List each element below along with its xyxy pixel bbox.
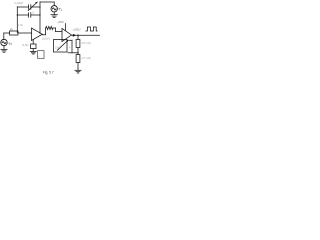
svg-text:(1,5k): (1,5k)	[22, 43, 29, 47]
svg-text:+: +	[69, 46, 71, 49]
svg-text:LM311: LM311	[73, 27, 81, 31]
svg-text:2: 2	[10, 44, 13, 46]
svg-text:1,5p: 1,5p	[18, 23, 24, 27]
svg-text:≈: ≈	[38, 56, 40, 59]
svg-text:1: 1	[61, 10, 63, 12]
svg-text:5÷20pF: 5÷20pF	[14, 1, 23, 5]
svg-text:+15V: +15V	[57, 20, 64, 24]
svg-text:(27 kΩ): (27 kΩ)	[81, 57, 91, 60]
svg-text:(50 kΩ): (50 kΩ)	[81, 42, 91, 45]
svg-text:Fig. 5.7: Fig. 5.7	[43, 71, 54, 75]
svg-text:C: C	[32, 10, 34, 14]
svg-text:(±15V): (±15V)	[42, 38, 50, 41]
